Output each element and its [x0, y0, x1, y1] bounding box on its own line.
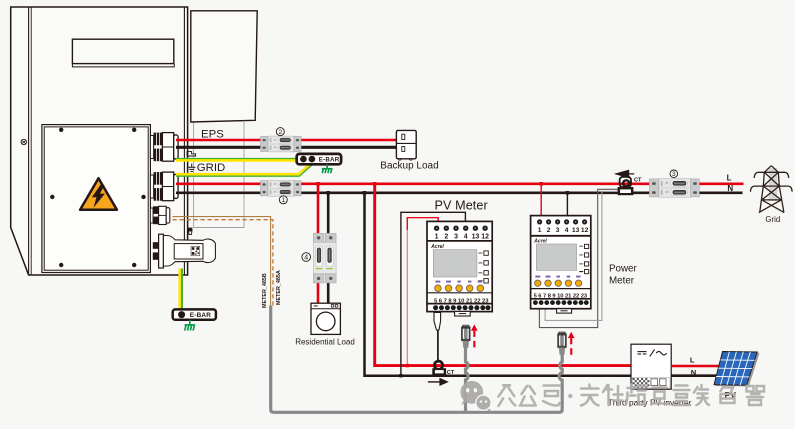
wire RS485 brown dashed — [173, 220, 273, 306]
backplate outline — [194, 122, 244, 228]
wire black drop to breaker 4 — [327, 193, 330, 304]
cable gland EPS (top) — [150, 133, 178, 162]
wire GRID L red bus — [176, 183, 744, 186]
svg-text:Acrel: Acrel — [533, 238, 547, 244]
cable gland COM (small) — [150, 206, 169, 224]
wire EPS N black — [176, 146, 396, 149]
panel screws — [50, 128, 146, 268]
svg-text:L: L — [690, 355, 695, 364]
svg-text:1: 1 — [281, 197, 285, 204]
power meter U3 — [531, 216, 591, 314]
dongle QR code — [191, 246, 200, 255]
warning label triangle — [80, 178, 117, 210]
svg-text:N: N — [691, 368, 696, 377]
label 1 — [279, 196, 287, 204]
svg-text:EPS: EPS — [201, 128, 224, 140]
inverter connection panel — [42, 125, 150, 273]
watermark text (stylized) — [499, 385, 765, 407]
svg-text:13: 13 — [472, 234, 480, 241]
junction dots — [316, 182, 543, 367]
arrow plug direction (power meter) — [568, 332, 575, 355]
wire GRID N black bus — [176, 192, 743, 195]
RS485 bus gray — [271, 306, 563, 413]
E-BAR busbar (top) — [297, 154, 341, 164]
svg-text:Acrel: Acrel — [430, 244, 444, 250]
svg-text:Power: Power — [609, 264, 638, 275]
wire power meter voltage tap N — [566, 193, 568, 220]
svg-text:4: 4 — [464, 234, 468, 241]
CT1 direction arrow — [614, 170, 629, 179]
svg-text:PV Meter: PV Meter — [435, 199, 488, 213]
watermark logo — [460, 381, 491, 412]
screw on left strip — [21, 139, 26, 144]
svg-text:E-BAR: E-BAR — [319, 157, 340, 164]
cable gland GRID — [150, 172, 178, 201]
ground symbol (bottom E-BAR) — [185, 320, 196, 331]
wire PV meter voltage tap N — [401, 212, 466, 375]
ground symbol (top E-BAR) — [322, 164, 333, 173]
third party PV inverter — [631, 344, 671, 389]
PV meter U2 — [427, 221, 492, 316]
svg-text:GRID: GRID — [197, 162, 225, 174]
svg-text:12: 12 — [581, 227, 589, 234]
cable clip detail — [187, 151, 196, 156]
label 2 — [276, 128, 284, 136]
wire red drop + bottom L bus — [375, 184, 631, 366]
CT2 (PV branch) — [432, 361, 446, 375]
arrow plug direction (PV meter) — [471, 324, 478, 347]
breaker CB3 (grid side) — [649, 179, 699, 198]
svg-text:Backup Load: Backup Load — [380, 160, 438, 171]
grid tower — [750, 166, 792, 213]
inverter U0 main unit front face — [11, 7, 188, 275]
svg-text:Meter: Meter — [609, 276, 635, 287]
CT2 direction arrow — [428, 381, 441, 383]
svg-text:L: L — [727, 173, 732, 182]
PV meter CT plug connector — [434, 312, 441, 330]
wire PV meter voltage tap L — [407, 218, 438, 366]
inverter right side face — [191, 11, 257, 122]
wire black drop + bottom N bus — [365, 193, 632, 376]
wire GRID PE green-yellow to E-BAR — [176, 164, 311, 175]
svg-text:E-BAR: E-BAR — [190, 312, 211, 319]
svg-text:4: 4 — [304, 255, 308, 262]
dongle antenna nub — [188, 228, 192, 235]
breaker CB1 (grid) — [261, 180, 302, 196]
breaker CB2 (EPS backup) — [261, 136, 302, 152]
svg-text:2: 2 — [547, 227, 551, 234]
wire L red to PV panel — [671, 365, 719, 368]
wifi dongle — [153, 234, 216, 268]
svg-text:CT: CT — [447, 370, 455, 376]
label 3 — [670, 170, 678, 178]
svg-text:Grid: Grid — [765, 215, 780, 224]
svg-text:Residential Load: Residential Load — [295, 337, 355, 346]
svg-text:12: 12 — [481, 234, 489, 241]
RS485 connector (PV meter) — [462, 325, 470, 348]
svg-text:METER_485B: METER_485B — [262, 273, 268, 308]
svg-text:1: 1 — [538, 227, 542, 234]
svg-text:1: 1 — [435, 234, 439, 241]
wire power meter voltage tap L — [540, 184, 542, 220]
label 4 — [302, 253, 311, 262]
wire EPS PE green-yellow to E-BAR — [176, 159, 297, 162]
wire PV meter CT lead — [437, 330, 439, 362]
svg-text:3: 3 — [454, 234, 458, 241]
svg-text:3: 3 — [556, 227, 560, 234]
wire N black to PV panel — [671, 374, 717, 377]
svg-text:METER_485A: METER_485A — [276, 270, 282, 305]
wire EPS L red — [176, 139, 396, 142]
svg-text:2: 2 — [444, 234, 448, 241]
residential load washing machine — [311, 303, 340, 334]
svg-text:N: N — [727, 184, 733, 193]
svg-text:2: 2 — [278, 129, 282, 136]
RS485 drop to PV meter connector — [466, 348, 469, 413]
svg-text:4: 4 — [565, 227, 569, 234]
wire CT1 secondary pair to power meter — [539, 189, 618, 327]
wire PE green-yellow down to bottom E-BAR — [178, 269, 181, 310]
breaker CB4 (residential, vertical) — [313, 233, 336, 283]
inverter display window — [72, 39, 174, 67]
CT1 (grid side) — [618, 177, 634, 195]
wire red drop to breaker 4 and residential load — [317, 184, 320, 304]
E-BAR busbar (bottom) — [173, 309, 216, 319]
backup load fridge — [396, 130, 416, 160]
svg-text:CT: CT — [634, 178, 642, 184]
wire RS485 brown solid — [173, 217, 271, 306]
PV panel — [714, 352, 759, 387]
svg-text:13: 13 — [572, 227, 580, 234]
svg-text:3: 3 — [672, 171, 676, 178]
RS485 connector (power meter) — [558, 332, 566, 355]
